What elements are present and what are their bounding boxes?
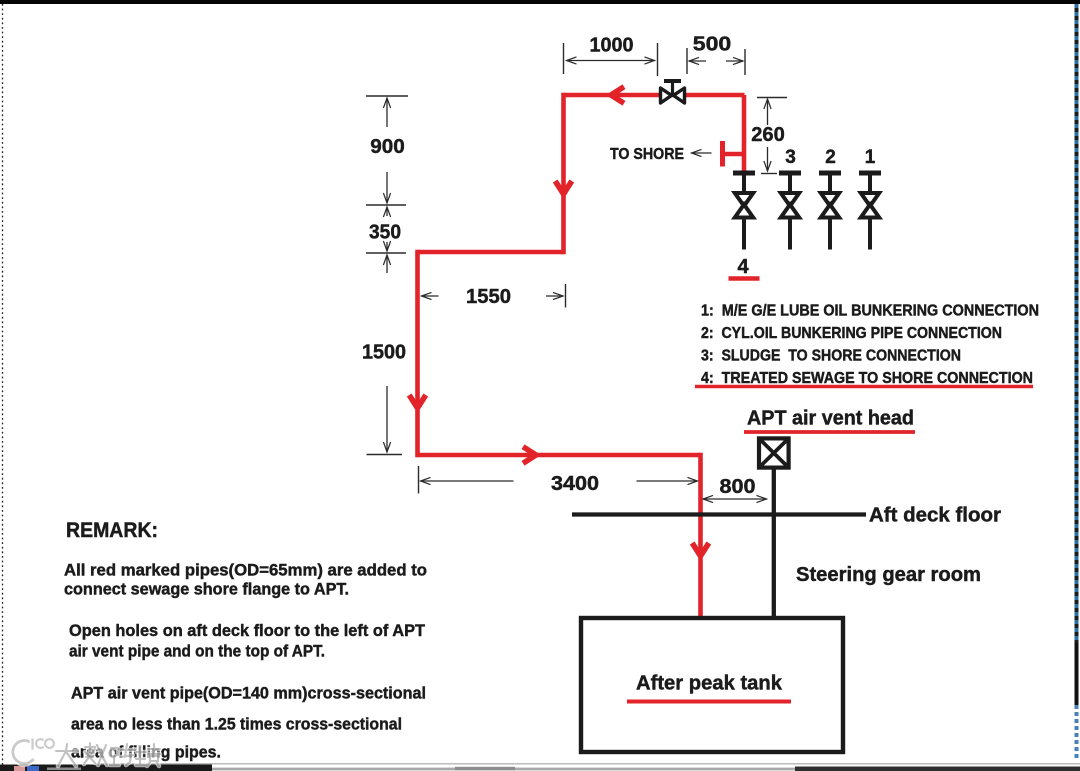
- svg-text:1500: 1500: [362, 342, 406, 364]
- valve 4 treated sewage connection: [733, 173, 755, 250]
- svg-text:area no less than 1.25 times c: area no less than 1.25 times cross-secti…: [71, 715, 402, 734]
- svg-text:1550: 1550: [466, 286, 511, 308]
- svg-text:Aft deck floor: Aft deck floor: [869, 505, 1001, 527]
- label 3: [785, 147, 796, 168]
- wire red pipe middle horizontal run at 1550 level: [418, 250, 564, 255]
- valve 1 lube oil connection: [859, 173, 881, 250]
- dimension 900 vertical with ticks and arrows: [366, 96, 408, 205]
- wire red pipe left vertical (900+350 drop): [561, 93, 566, 255]
- label TO SHORE with arrow: [610, 146, 712, 163]
- dimension 3400 horizontal with tick and arrows: [419, 466, 698, 495]
- svg-text:1: M/E G/E LUBE OIL BUNKERING: 1: M/E G/E LUBE OIL BUNKERING CONNECTION: [701, 303, 1039, 320]
- valve V-shore bowtie valve with handle on top run: [661, 81, 685, 103]
- remark paragraph 2: [69, 621, 426, 661]
- dimension 1550 horizontal with arrows and tick: [422, 284, 566, 308]
- label 2: [825, 147, 836, 168]
- dimension 260 vertical with ticks and arrows: [751, 98, 787, 174]
- svg-text:3: 3: [785, 147, 796, 168]
- label 1: [865, 147, 876, 168]
- wire red pipe right vertical drop to valve 4: [742, 95, 747, 172]
- wire red pipe 1500 vertical drop: [415, 250, 420, 458]
- svg-text:All red marked pipes(OD=65mm): All red marked pipes(OD=65mm) are added …: [64, 561, 427, 580]
- legend line 4 treated sewage to shore connection with red underline: [695, 370, 1033, 387]
- valve 2 cyl oil connection: [819, 173, 841, 250]
- dimension 350 vertical with arrows: [366, 207, 406, 253]
- svg-text:500: 500: [693, 34, 732, 56]
- svg-text:350: 350: [369, 222, 401, 244]
- svg-text:Steering gear room: Steering gear room: [796, 564, 981, 586]
- red flow arrow down on left vertical: [555, 181, 572, 194]
- wire red pipe bottom horizontal run 3400: [418, 453, 701, 458]
- svg-text:Open holes on aft deck floor t: Open holes on aft deck floor to the left…: [69, 621, 426, 640]
- svg-text:air vent pipe and on the top o: air vent pipe and on the top of APT.: [69, 642, 325, 661]
- line aft deck floor: [572, 512, 866, 516]
- label After peak tank with red underline: [627, 673, 791, 702]
- valve 3 sludge connection: [779, 173, 801, 250]
- svg-text:APT air vent pipe(OD=140 mm)cr: APT air vent pipe(OD=140 mm)cross-sectio…: [71, 684, 426, 703]
- svg-text:After peak tank: After peak tank: [636, 673, 783, 695]
- svg-text:3: SLUDGE TO SHORE CONNECTIO: 3: SLUDGE TO SHORE CONNECTION: [701, 348, 961, 365]
- svg-text:connect sewage shore flange to: connect sewage shore flange to APT.: [64, 580, 349, 599]
- red flow arrow left on top run: [611, 87, 624, 104]
- wire red pipe final vertical drop into after peak tank: [698, 453, 703, 617]
- dimension 500 with ticks and arrows: [687, 34, 745, 76]
- legend line 3 sludge to shore connection: [701, 348, 961, 365]
- svg-text:4: TREATED SEWAGE TO SHORE CO: 4: TREATED SEWAGE TO SHORE CONNECTION: [701, 370, 1033, 387]
- red flow arrow down on 1500 vertical: [409, 395, 426, 408]
- svg-text:3400: 3400: [551, 473, 599, 495]
- wire red tee branch to shore flange: [722, 141, 744, 167]
- red flow arrow right on bottom run: [523, 447, 536, 464]
- wire black APT air vent pipe: [772, 470, 776, 618]
- label 4 with red underline: [729, 256, 760, 279]
- svg-text:1: 1: [865, 147, 876, 168]
- remark paragraph 1: [64, 561, 427, 599]
- remark heading: [66, 519, 158, 542]
- svg-text:2: 2: [825, 147, 836, 168]
- vent head crossed box symbol: [759, 438, 789, 467]
- legend line 1 lube oil bunkering connection: [701, 303, 1039, 320]
- dimension 1500 vertical with ticks and arrows: [362, 255, 406, 455]
- watermark logo and text: [13, 739, 160, 767]
- svg-text:1000: 1000: [590, 35, 634, 57]
- svg-text:2: CYL.OIL BUNKERING PIPE CON: 2: CYL.OIL BUNKERING PIPE CONNECTION: [701, 325, 1002, 342]
- svg-text:4: 4: [737, 256, 749, 278]
- svg-text:800: 800: [720, 476, 756, 498]
- label APT air vent head with red underline: [744, 408, 915, 433]
- svg-text:TO SHORE: TO SHORE: [610, 146, 684, 163]
- label Aft deck floor: [869, 505, 1001, 527]
- label Steering gear room: [796, 564, 981, 586]
- svg-text:APT air vent head: APT air vent head: [747, 408, 914, 430]
- wire red sewage pipe top horizontal run: [564, 93, 745, 98]
- remark paragraph 3: [71, 684, 426, 762]
- svg-text:900: 900: [370, 136, 405, 158]
- dimension 800 horizontal double arrow: [703, 476, 767, 503]
- dimension 1000 with extension ticks and arrows: [564, 35, 658, 77]
- red flow arrow down into tank: [692, 543, 709, 556]
- after peak tank box: [581, 618, 843, 752]
- svg-text:260: 260: [751, 124, 785, 146]
- svg-text:REMARK:: REMARK:: [66, 519, 158, 542]
- legend line 2 cyl oil bunkering pipe connection: [701, 325, 1002, 342]
